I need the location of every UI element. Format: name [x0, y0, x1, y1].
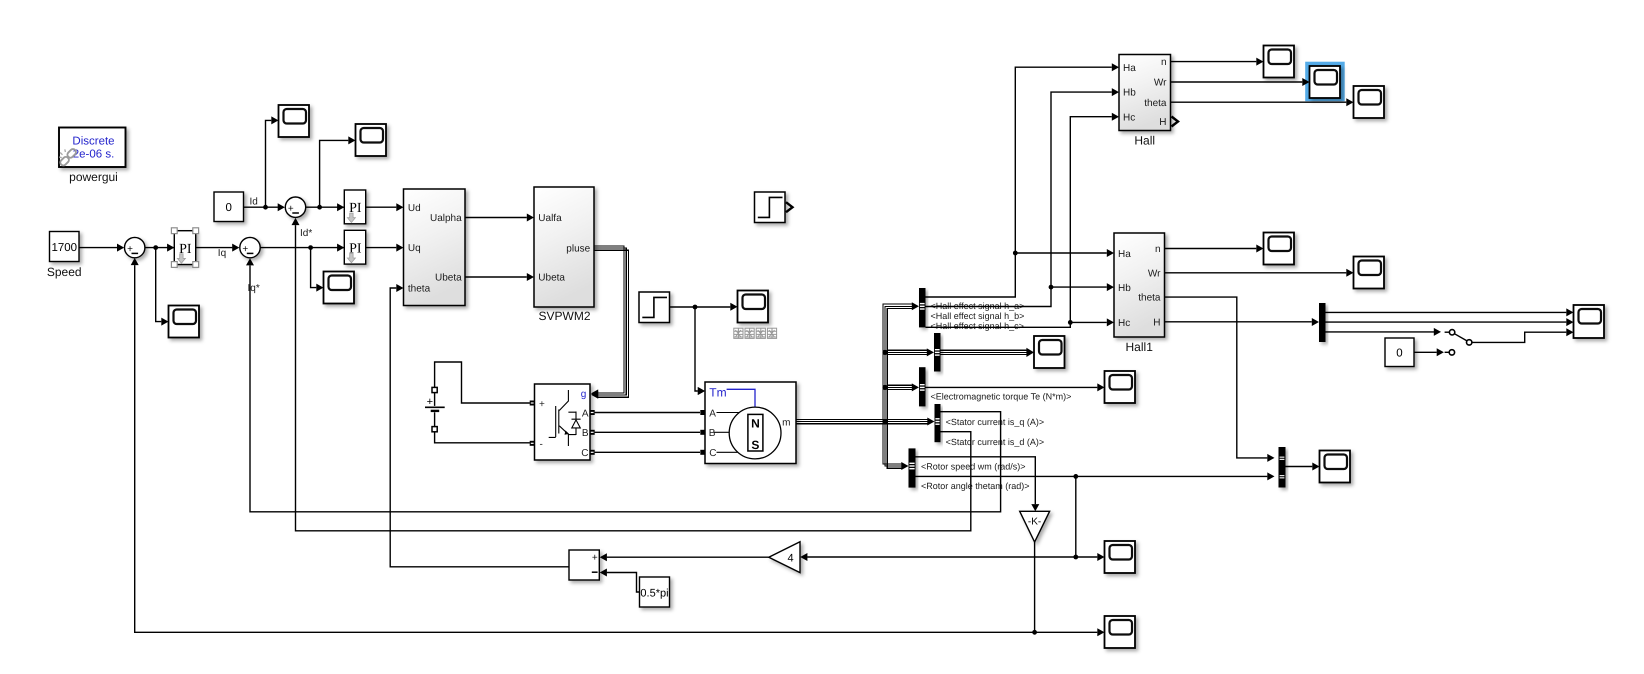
svg-text:C: C: [581, 448, 588, 459]
bus branch to selector2: [887, 349, 928, 351]
wire demux out3 to switch: [1326, 331, 1435, 333]
wire pluse bus to inverter gate g: [594, 246, 624, 393]
constant Id ref 0: [214, 192, 244, 222]
motor magnet N-S: [748, 414, 763, 451]
bus selector BS5 rotor: [909, 448, 916, 487]
svg-text:Hb: Hb: [1118, 283, 1131, 294]
wire h_a to Hall.Ha and Hall1.Ha: [926, 67, 1112, 297]
scope Hall theta scope: [1354, 86, 1385, 118]
svg-text:-K-: -K-: [1028, 516, 1041, 527]
wire Hall.theta to scope: [1171, 101, 1347, 103]
mux2: [1279, 447, 1286, 488]
svg-text:+: +: [539, 399, 545, 410]
subsystem PMSM motor: [705, 382, 796, 464]
wire demux out2: [1326, 321, 1567, 323]
svg-text:Hall: Hall: [1134, 133, 1155, 147]
svg-text:pluse: pluse: [566, 244, 590, 255]
svg-text:Hc: Hc: [1123, 112, 1135, 123]
svg-text:N: N: [751, 416, 760, 430]
constant 0.5*pi: [640, 577, 670, 607]
PI controller PI2: [344, 190, 365, 224]
Hall H unconnected chevron: [1172, 117, 1179, 127]
svg-text:m: m: [782, 417, 790, 428]
inverter input port squares: [530, 401, 535, 406]
motor input ports: [700, 410, 705, 415]
selected scope Hall Wr (blue highlight): [1305, 62, 1345, 101]
wire switch out to scope: [1472, 332, 1566, 342]
bus junction dots: [882, 419, 887, 424]
scope thetam scope: [1105, 541, 1136, 573]
manual switch: [1449, 330, 1454, 335]
wire phase B: [595, 431, 700, 433]
bus wire vertical up to hall bus-selector: [883, 304, 913, 421]
svg-text:Wr: Wr: [1148, 268, 1161, 279]
svg-text:Id*: Id*: [300, 228, 312, 239]
scope Scope1: [279, 105, 310, 137]
motor port stub lines: [717, 412, 740, 414]
step Step2 load torque: [639, 292, 670, 323]
scope Te scope: [1105, 371, 1136, 403]
svg-text:Discrete: Discrete: [72, 136, 114, 148]
wire is_q feedback to sum2: [250, 265, 1001, 511]
svg-text:<Stator current is_d (A)>: <Stator current is_d (A)>: [946, 437, 1045, 447]
svg-text:+: +: [592, 553, 598, 564]
bus selector BS1 hall signals: [919, 288, 926, 327]
wire sum2 to PI3 with branch to scope3: [261, 247, 345, 249]
svg-text:Ubeta: Ubeta: [538, 273, 565, 284]
bus selector BS2: [934, 333, 941, 372]
svg-text:-: -: [540, 439, 543, 450]
wire is_d feedback to sum3: [296, 225, 971, 531]
wire Te to scope: [926, 386, 1098, 388]
inverter output ports A B C: [590, 410, 595, 415]
PI controller PI1 (selected): [174, 231, 195, 265]
svg-text:Ualpha: Ualpha: [430, 213, 462, 224]
svg-text:Id: Id: [250, 197, 258, 208]
svg-text:Tm: Tm: [709, 386, 726, 400]
svg-text:n: n: [1161, 57, 1167, 68]
svg-text:SVPWM2: SVPWM2: [538, 309, 590, 323]
sum S3 id error: [285, 197, 305, 217]
svg-text:0: 0: [1396, 348, 1402, 360]
block powergui: [59, 128, 126, 168]
wire Hall.Wr to scope: [1171, 81, 1303, 83]
bus selector BS4 stator currents: [935, 404, 941, 442]
svg-text:Wr: Wr: [1154, 78, 1167, 89]
svg-text:A: A: [582, 408, 589, 419]
wire thetam to mux and down: [916, 475, 1268, 477]
wire PI2 to Ud: [366, 206, 397, 208]
svg-text:Iq: Iq: [218, 248, 226, 259]
svg-text:<Rotor speed wm (rad/s)>: <Rotor speed wm (rad/s)>: [921, 462, 1026, 472]
wire battery- to inverter -: [435, 432, 530, 443]
scope Hall1 n scope: [1264, 233, 1295, 265]
wire wm to gain -K-: [916, 457, 1036, 504]
svg-text:<Hall effect signal h_b>: <Hall effect signal h_b>: [931, 311, 1025, 321]
wire step2 to scope and Tm: [670, 306, 731, 308]
subsystem inverter bridge: [535, 384, 591, 460]
svg-text:Speed: Speed: [47, 265, 82, 279]
wire Ualpha to Ualfa: [465, 217, 527, 219]
sum S2 iq error: [240, 237, 260, 257]
svg-text:Hc: Hc: [1118, 318, 1130, 329]
inverter IGBT+diode icon: [549, 390, 581, 446]
svg-text:theta: theta: [1144, 98, 1167, 109]
wire Hall.n to scope: [1171, 61, 1257, 63]
wire sum1 to PI1 with branch to scope4: [145, 247, 174, 249]
svg-text:B: B: [582, 428, 589, 439]
sum rectangle (mirrored) theta offset: [569, 550, 599, 580]
svg-text:1700: 1700: [51, 242, 77, 254]
svg-text:C: C: [709, 448, 716, 459]
scope theta compare scope: [1320, 451, 1351, 483]
step Step1 (unconnected): [755, 192, 786, 223]
PI controller PI3: [344, 230, 365, 264]
wire h_b to Hall.Hb and Hall1.Hb: [926, 92, 1112, 306]
wire thetam horizontal to gain4 and scope: [807, 556, 1097, 558]
svg-text:Ha: Ha: [1123, 63, 1136, 74]
subsystem ipark (Ud,Uq,theta -> Ualpha,Ubeta): [404, 189, 466, 306]
wire Hall1.theta to mux: [1165, 297, 1268, 458]
wire phase C: [595, 451, 700, 453]
wire mux2 to scope: [1286, 466, 1313, 468]
wire 0.5*pi to sum -: [607, 573, 640, 593]
gain 4 (pole pairs): [769, 542, 800, 573]
gain -K- (rad/s to rpm): [1020, 511, 1050, 542]
scope load-torque scope: [738, 291, 769, 323]
bus wire m output: [796, 418, 928, 420]
wire sum3 to PI2 with branch up to scope2: [306, 206, 344, 208]
dc source battery: [434, 393, 436, 406]
bus wire vertical down to rotor bus-selector: [883, 422, 902, 464]
svg-text:<Stator current is_q (A)>: <Stator current is_q (A)>: [946, 417, 1045, 427]
svg-text:Ubeta: Ubeta: [435, 273, 462, 284]
demux: [1319, 303, 1326, 342]
wire battery+ to inverter +: [435, 362, 530, 403]
scope Scope3 iq-loop: [324, 272, 355, 304]
motor rotor circle: [729, 407, 781, 459]
svg-text:Hb: Hb: [1123, 88, 1136, 99]
scope hall vector scope: [1034, 336, 1065, 368]
svg-text:2e-06 s.: 2e-06 s.: [73, 149, 115, 161]
svg-text:B: B: [709, 428, 716, 439]
svg-text:H: H: [1153, 317, 1160, 328]
wire const0 to sum3 with branch up to scope1: [244, 206, 278, 208]
wire PI1 to sum2 (Iq ref): [196, 247, 233, 249]
constant Speed 1700: [50, 232, 80, 262]
svg-text:+: +: [427, 396, 433, 408]
svg-text:<Electromagnetic torque Te (N*: <Electromagnetic torque Te (N*m)>: [931, 391, 1072, 401]
svg-text:theta: theta: [408, 284, 431, 295]
scope demux scope: [1574, 305, 1605, 338]
motor Tm input arrow: [698, 387, 705, 395]
wire gain4 out to sum-rect +: [607, 556, 769, 558]
svg-text:powergui: powergui: [69, 170, 118, 184]
svg-text:Uq: Uq: [408, 243, 421, 254]
constant 0 (switch): [1385, 338, 1414, 367]
svg-text:Ud: Ud: [408, 203, 421, 214]
wire Hall1.H to demux: [1165, 321, 1312, 323]
wire Speed to sum1: [79, 247, 117, 249]
wire const0 to switch: [1414, 351, 1437, 353]
wire Hall1.Wr to scope: [1165, 272, 1347, 274]
svg-text:Ha: Ha: [1118, 249, 1131, 260]
svg-text:g: g: [581, 389, 587, 400]
label load torque (CJK): [734, 328, 743, 338]
wire Hall1.n to scope: [1165, 248, 1257, 250]
bus branch to selector3: [887, 384, 913, 386]
scope Scope4 speed-loop: [169, 306, 200, 338]
svg-text:<Rotor angle thetam (rad)>: <Rotor angle thetam (rad)>: [921, 481, 1030, 491]
wire h_c to Hall.Hc and Hall1.Hc: [926, 117, 1112, 328]
bus selector BS3 torque: [919, 367, 926, 406]
wire phase A: [595, 412, 700, 414]
svg-text:A: A: [709, 408, 716, 419]
selection handles PI1: [171, 228, 177, 234]
svg-text:theta: theta: [1138, 293, 1161, 304]
scope Hall n scope: [1264, 46, 1295, 78]
svg-text:Ualfa: Ualfa: [538, 213, 562, 224]
wire PI3 to Uq: [366, 247, 397, 249]
svg-text:0: 0: [226, 202, 232, 214]
wire Ubeta to Ubeta: [465, 276, 527, 278]
wire speed feedback bottom: [135, 265, 1035, 632]
scope Hall1 Wr scope: [1354, 257, 1385, 289]
svg-text:n: n: [1155, 244, 1161, 255]
sum S1 speed error: [125, 237, 145, 257]
wire demux out1: [1326, 311, 1567, 313]
svg-text:H: H: [1159, 117, 1166, 128]
svg-text:0.5*pi: 0.5*pi: [640, 587, 668, 599]
wire BS2 to scope (hall vector): [941, 349, 1027, 351]
inverter gate arrow: [591, 389, 598, 397]
wire -K- out to speed feedback: [1034, 542, 1036, 632]
svg-text:S: S: [751, 438, 759, 452]
svg-text:Hall1: Hall1: [1126, 340, 1154, 354]
wire sum-rect out to ipark theta: [390, 288, 569, 567]
scope Scope2: [356, 124, 387, 156]
subsystem Hall: [1119, 55, 1171, 131]
svg-text:<Hall effect signal h_c>: <Hall effect signal h_c>: [931, 321, 1024, 331]
subsystem Hall1: [1114, 233, 1165, 337]
subsystem SVPWM2: [534, 187, 594, 307]
svg-text:4: 4: [787, 552, 793, 564]
scope speed rpm scope: [1105, 616, 1136, 648]
powergui broken-link icon: [59, 148, 77, 167]
